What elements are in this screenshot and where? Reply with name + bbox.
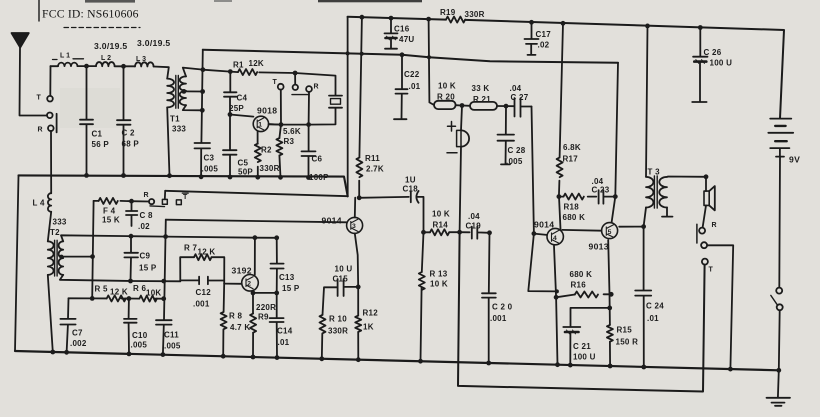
- svg-text:C10: C10: [132, 331, 148, 340]
- svg-text:.005: .005: [506, 157, 523, 166]
- svg-text:9014: 9014: [322, 216, 342, 226]
- svg-text:T: T: [273, 79, 278, 86]
- svg-text:333: 333: [53, 218, 67, 227]
- svg-text:T2: T2: [50, 228, 60, 237]
- svg-text:C1: C1: [92, 130, 103, 139]
- svg-text:4: 4: [553, 235, 557, 242]
- svg-text:.001: .001: [193, 300, 210, 309]
- svg-text:3192: 3192: [232, 266, 252, 276]
- svg-text:FCC ID: NS610606: FCC ID: NS610606: [42, 8, 139, 21]
- svg-text:.02: .02: [138, 222, 150, 231]
- svg-text:C13: C13: [279, 273, 295, 282]
- svg-text:9013: 9013: [589, 242, 609, 252]
- svg-text:47U: 47U: [399, 35, 414, 44]
- svg-text:R11: R11: [365, 154, 380, 163]
- svg-text:56 P: 56 P: [92, 140, 110, 149]
- svg-text:R 6: R 6: [133, 284, 147, 293]
- svg-text:T: T: [37, 95, 42, 102]
- svg-text:100P: 100P: [309, 173, 329, 182]
- svg-text:3.0/19.5: 3.0/19.5: [137, 38, 170, 48]
- svg-text:R1: R1: [233, 61, 244, 70]
- svg-text:680 K: 680 K: [563, 213, 586, 222]
- svg-text:.01: .01: [409, 82, 421, 91]
- svg-text:50P: 50P: [238, 168, 253, 177]
- svg-text:C16: C16: [394, 25, 410, 34]
- svg-text:68 P: 68 P: [122, 140, 140, 149]
- svg-text:R3: R3: [284, 137, 295, 146]
- svg-text:R12: R12: [363, 309, 379, 318]
- svg-text:T: T: [709, 267, 714, 274]
- svg-text:C 2 0: C 2 0: [492, 303, 513, 312]
- svg-text:150 R: 150 R: [616, 338, 639, 347]
- svg-text:R: R: [38, 127, 43, 134]
- svg-text:C 26: C 26: [704, 48, 722, 57]
- svg-text:10 K: 10 K: [438, 82, 456, 91]
- svg-text:C3: C3: [204, 154, 215, 163]
- svg-text:T1: T1: [170, 115, 180, 124]
- svg-text:R 8: R 8: [229, 312, 243, 321]
- svg-text:333: 333: [172, 125, 186, 134]
- svg-text:C14: C14: [277, 327, 293, 336]
- svg-text:R 20: R 20: [437, 93, 455, 102]
- svg-text:9014: 9014: [534, 220, 554, 230]
- svg-text:R 13: R 13: [430, 270, 448, 279]
- svg-text:T: T: [183, 194, 188, 201]
- svg-text:.005: .005: [131, 341, 148, 350]
- svg-text:C7: C7: [72, 329, 83, 338]
- svg-text:220R: 220R: [256, 303, 276, 312]
- svg-text:3.0/19.5: 3.0/19.5: [94, 41, 127, 51]
- svg-text:1K: 1K: [363, 323, 374, 332]
- svg-text:9V: 9V: [789, 155, 800, 165]
- svg-text:L 1: L 1: [60, 53, 70, 60]
- svg-text:R9: R9: [258, 313, 269, 322]
- svg-text:R 7: R 7: [184, 244, 198, 253]
- svg-text:.001: .001: [490, 314, 507, 323]
- svg-text:C22: C22: [404, 70, 420, 79]
- svg-text:L 4: L 4: [33, 199, 45, 208]
- svg-text:R2: R2: [261, 146, 272, 155]
- svg-text:.02: .02: [538, 41, 550, 50]
- svg-text:C 23: C 23: [592, 186, 610, 195]
- svg-text:C9: C9: [140, 252, 151, 261]
- svg-text:.01: .01: [278, 338, 290, 347]
- svg-text:15 P: 15 P: [282, 284, 300, 293]
- svg-text:1U: 1U: [405, 176, 416, 185]
- svg-text:C17: C17: [536, 30, 552, 39]
- svg-text:C 8: C 8: [140, 211, 154, 220]
- svg-text:C 24: C 24: [646, 302, 664, 311]
- svg-text:R16: R16: [571, 281, 587, 290]
- svg-text:C4: C4: [237, 94, 248, 103]
- svg-text:100 U: 100 U: [573, 353, 596, 362]
- svg-text:R 21: R 21: [473, 95, 491, 104]
- svg-text:C18: C18: [403, 185, 419, 194]
- svg-text:R18: R18: [564, 203, 580, 212]
- svg-text:10K: 10K: [146, 289, 161, 298]
- svg-text:330R: 330R: [465, 10, 485, 19]
- svg-text:12K: 12K: [249, 59, 264, 68]
- svg-text:9018: 9018: [257, 106, 277, 116]
- svg-text:2: 2: [247, 281, 251, 288]
- svg-text:330R: 330R: [328, 327, 348, 336]
- svg-text:3: 3: [352, 223, 356, 230]
- svg-text:C12: C12: [196, 288, 212, 297]
- svg-text:5: 5: [608, 229, 612, 236]
- svg-text:.002: .002: [70, 339, 87, 348]
- svg-text:C 28: C 28: [508, 146, 526, 155]
- svg-text:R19: R19: [440, 8, 456, 17]
- svg-text:12 K: 12 K: [110, 288, 128, 297]
- svg-text:15 K: 15 K: [102, 216, 120, 225]
- svg-text:R14: R14: [433, 221, 449, 230]
- svg-text:C19: C19: [466, 222, 482, 231]
- svg-text:R: R: [144, 192, 149, 199]
- svg-text:1: 1: [258, 122, 262, 129]
- svg-text:C 2: C 2: [122, 129, 136, 138]
- svg-text:.005: .005: [202, 165, 219, 174]
- svg-text:330R: 330R: [260, 164, 280, 173]
- svg-text:.01: .01: [647, 314, 659, 323]
- svg-text:C6: C6: [312, 155, 323, 164]
- svg-text:10 K: 10 K: [430, 280, 448, 289]
- svg-text:680 K: 680 K: [570, 270, 593, 279]
- svg-text:R 5: R 5: [95, 285, 109, 294]
- svg-text:100 U: 100 U: [710, 59, 733, 68]
- svg-text:.04: .04: [468, 212, 480, 221]
- svg-text:R: R: [314, 84, 319, 91]
- svg-text:5.6K: 5.6K: [283, 127, 301, 136]
- svg-text:T 3: T 3: [648, 168, 661, 177]
- svg-text:10 U: 10 U: [335, 265, 353, 274]
- svg-text:R17: R17: [563, 155, 579, 164]
- svg-text:C11: C11: [164, 331, 179, 340]
- svg-text:R: R: [712, 222, 717, 229]
- svg-text:15 P: 15 P: [139, 264, 157, 273]
- svg-text:33 K: 33 K: [472, 84, 490, 93]
- svg-text:R15: R15: [617, 326, 633, 335]
- svg-text:C 21: C 21: [573, 342, 591, 351]
- svg-text:.04: .04: [510, 84, 522, 93]
- svg-text:12 K: 12 K: [198, 248, 216, 257]
- svg-text:F 4: F 4: [103, 207, 116, 216]
- svg-text:6.8K: 6.8K: [563, 143, 581, 152]
- svg-text:10 K: 10 K: [432, 210, 450, 219]
- svg-text:25P: 25P: [229, 104, 244, 113]
- svg-text:L 3: L 3: [136, 56, 146, 63]
- svg-text:L 2: L 2: [101, 55, 111, 62]
- svg-text:C5: C5: [238, 159, 249, 168]
- svg-text:.005: .005: [164, 342, 181, 351]
- svg-text:4.7 K: 4.7 K: [230, 323, 250, 332]
- svg-text:R 10: R 10: [329, 315, 347, 324]
- svg-text:C 27: C 27: [511, 93, 529, 102]
- svg-text:C15: C15: [333, 275, 349, 284]
- svg-text:2.7K: 2.7K: [366, 165, 384, 174]
